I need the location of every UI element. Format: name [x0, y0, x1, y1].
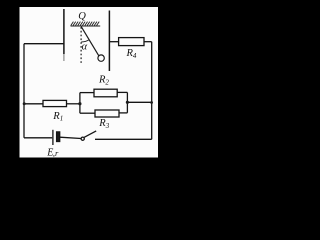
resistor R2 — [94, 89, 117, 97]
svg-text:,r: ,r — [53, 148, 59, 158]
parallel section left vertical wire — [79, 93, 81, 114]
pendulum ball — [98, 55, 104, 61]
resistor R3 — [95, 110, 119, 117]
wire left edge — [23, 44, 25, 138]
angle alpha arc — [81, 40, 89, 42]
parallel section right vertical wire — [126, 92, 128, 112]
ceiling hatching — [71, 22, 99, 26]
capacitor plate left — [63, 9, 65, 54]
wire top branch right — [117, 91, 127, 93]
wire top branch left — [80, 92, 94, 94]
wire middle row from left edge — [24, 103, 43, 105]
wire bottom branch right — [119, 112, 127, 114]
svg-text:α: α — [82, 41, 88, 52]
junction node right edge — [150, 101, 153, 104]
resistor R1 — [43, 100, 67, 106]
battery E,r long plate — [52, 130, 54, 145]
wire bottom left — [24, 137, 52, 139]
wire right plate to R4 — [109, 41, 118, 43]
paper background — [20, 7, 159, 158]
wire R1 to parallel section — [67, 103, 80, 105]
resistor R4 — [119, 38, 144, 46]
wire bottom branch left — [80, 112, 95, 114]
battery E,r short thick plate — [57, 132, 60, 142]
wire battery to switch — [60, 137, 81, 138]
capacitor plate right — [108, 11, 110, 72]
pendulum string — [81, 27, 99, 56]
wire bottom right — [95, 138, 152, 140]
junction node parallel left — [78, 102, 81, 105]
wire parallel section to right edge — [127, 101, 151, 103]
ceiling line — [71, 25, 101, 27]
svg-text:Q: Q — [78, 11, 86, 22]
switch lever — [84, 131, 96, 137]
switch pivot contact — [81, 137, 84, 140]
wire top-left — [24, 43, 64, 45]
junction node left — [23, 102, 26, 105]
wire R4 to right edge — [144, 41, 152, 43]
wire right edge — [151, 42, 153, 140]
junction node parallel right — [126, 101, 129, 104]
pendulum vertical dotted line — [80, 27, 82, 65]
